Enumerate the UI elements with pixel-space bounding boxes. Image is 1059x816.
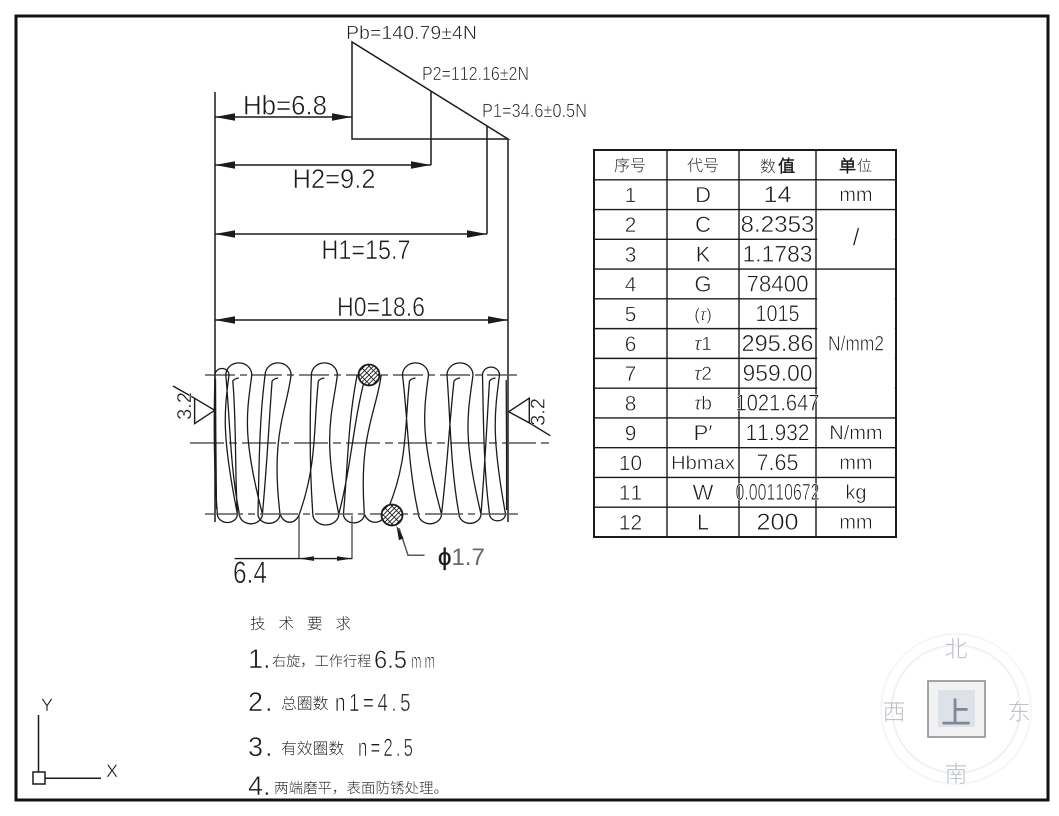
- compass 东: [1009, 701, 1028, 722]
- compass 南: [946, 763, 966, 784]
- wire section circle bottom: [355, 500, 429, 530]
- table body: [620, 186, 883, 529]
- label P1: [483, 104, 585, 118]
- tech req item 4: [249, 776, 439, 795]
- dimension Hb=6.8: [215, 95, 352, 121]
- compass 北: [946, 638, 967, 658]
- bottom centerline: [205, 513, 520, 515]
- tech req item 2: [249, 692, 409, 711]
- compass 西: [884, 703, 904, 722]
- load-deflection triangle: [352, 42, 508, 139]
- label Pb: [348, 25, 476, 39]
- wire section circle top: [332, 360, 406, 390]
- top centerline: [205, 374, 520, 376]
- tech req item 1: [250, 649, 434, 668]
- UCS icon: [33, 699, 118, 784]
- leader and label phi1.7: [396, 525, 483, 570]
- label P2: [423, 67, 527, 81]
- middle centerline: [190, 442, 553, 444]
- left extension line: [214, 92, 216, 522]
- parameter table grid: [594, 150, 896, 537]
- right boundary line: [507, 139, 509, 522]
- drop line P1: [486, 126, 488, 234]
- surface finish symbol left 3.2: [173, 386, 215, 424]
- table merged-cell masks: [817, 238, 895, 390]
- spring coil wire: [214, 363, 506, 525]
- dimension H1=15.7: [215, 230, 487, 259]
- compass rings: [881, 634, 1031, 784]
- surface finish symbol right 3.2: [509, 398, 551, 436]
- compass center cube: [928, 681, 985, 737]
- tech req item 3: [249, 737, 412, 756]
- dimension H0=18.6: [215, 297, 508, 324]
- table header row: [615, 158, 872, 174]
- dimension 6.4: [234, 516, 352, 584]
- compass 上: [943, 699, 969, 724]
- drop line P2: [430, 92, 432, 166]
- tech requirements title: [251, 616, 351, 630]
- dimension H2=9.2: [215, 161, 431, 188]
